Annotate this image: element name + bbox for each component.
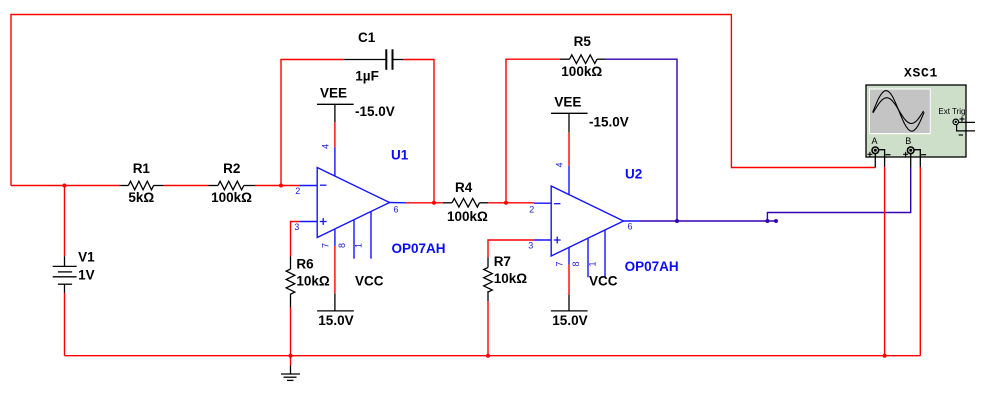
XSC1 screen [870, 90, 930, 134]
resistor R4 [443, 180, 488, 224]
wire R4 to U2 pin 2 [488, 202, 534, 204]
U1 triangle body [317, 168, 389, 238]
wire U1 output to R4 [406, 202, 443, 204]
XSC1 channel A minus terminal lead [879, 150, 885, 167]
svg-text:VCC: VCC [355, 274, 384, 289]
U2 pin 3 stub [534, 239, 551, 241]
XSC1 channel B plus mark [903, 153, 908, 155]
wire U2 output net [640, 220, 776, 222]
XSC1 waveform trace A [873, 91, 924, 132]
XSC1 Ext Trig plus lead [959, 121, 975, 123]
wire R7 to bottom rail [487, 301, 489, 356]
svg-text:100kΩ: 100kΩ [211, 190, 252, 205]
node junction C1 loop at U1 pin 2 net [279, 184, 283, 188]
op-amp U1 OP07AH [294, 144, 445, 259]
wire scope B- to bottom rail [919, 167, 921, 356]
node junction R5 loop at U2 output net [675, 219, 679, 223]
svg-text:VCC: VCC [589, 274, 618, 289]
U2 pin 2 stub [534, 202, 551, 204]
wire bottom ground rail [65, 355, 921, 357]
U2 pin 7 stub [568, 247, 570, 264]
XSC1 Ext Trig minus lead [957, 125, 975, 131]
resistor R7 [484, 254, 528, 301]
wire U2 pin 7 to VCC [568, 265, 570, 296]
XSC1 channel A terminal [872, 147, 879, 154]
svg-text:5kΩ: 5kΩ [128, 190, 154, 205]
svg-text:R6: R6 [296, 257, 314, 272]
XSC1 Ext Trig minus mark [959, 134, 963, 136]
svg-text:OP07AH: OP07AH [625, 259, 679, 274]
XSC1 waveform trace B [873, 98, 924, 124]
U2 non-inverting input plus mark [554, 239, 561, 241]
XSC1 screen bezel [869, 89, 931, 135]
XSC1 channel B terminal [907, 147, 914, 154]
wire U2 pin 3 to R7 [488, 240, 534, 257]
svg-text:A: A [872, 136, 878, 146]
supply VCC 15.0V for U1 [317, 274, 384, 329]
svg-text:3: 3 [528, 241, 533, 251]
supply VEE -15.0V for U1 [317, 86, 395, 123]
wire R1 to R2 [164, 185, 209, 187]
wire output net to scope B+ [767, 167, 910, 221]
svg-text:6: 6 [628, 222, 633, 232]
svg-text:10kΩ: 10kΩ [296, 274, 330, 289]
wire R6 to bottom rail [290, 308, 292, 356]
svg-text:V1: V1 [78, 249, 95, 264]
wire input node to scope A+ (top loop) [11, 15, 875, 186]
wire C1 feedback loop left leg [281, 60, 344, 186]
svg-text:1µF: 1µF [355, 69, 379, 84]
U1 pin 1 stub [370, 212, 372, 259]
U2 triangle body [551, 186, 623, 256]
U1 pin 3 stub [300, 221, 317, 223]
svg-text:U1: U1 [391, 148, 409, 163]
wire VEE to U1 pin 4 [334, 122, 336, 147]
wire input node to R1 [11, 185, 120, 187]
svg-text:2: 2 [295, 186, 300, 196]
voltage source V1 1V [53, 249, 95, 292]
XSC1 Ext Trig terminal [953, 119, 959, 125]
U2 pin 1 stub [604, 230, 606, 277]
XSC1 channel A plus mark [867, 153, 872, 155]
svg-text:100kΩ: 100kΩ [447, 209, 488, 224]
op-amp U2 OP07AH [528, 162, 678, 277]
svg-text:-15.0V: -15.0V [589, 115, 629, 130]
wire R2 to U1 pin 2 [255, 185, 300, 187]
svg-text:1: 1 [587, 261, 597, 266]
U2 pin 8 stub [587, 238, 589, 277]
node junction R5 loop at U2 pin 2 net [504, 201, 508, 205]
U2 pin 6 output stub [624, 220, 641, 222]
svg-text:U2: U2 [625, 167, 642, 182]
wire R5 feedback loop left leg [506, 59, 560, 203]
svg-text:C1: C1 [358, 30, 376, 45]
svg-text:XSC1: XSC1 [904, 66, 938, 81]
node output net end [774, 219, 778, 223]
XSC1 channel B plus terminal lead [910, 154, 912, 167]
resistor R5 [560, 34, 605, 79]
svg-text:2: 2 [529, 205, 534, 215]
wire U1 pin 7 to VCC [334, 246, 336, 294]
XSC1 body [866, 85, 966, 157]
svg-text:R5: R5 [574, 34, 592, 49]
supply VEE -15.0V for U2 [551, 95, 629, 133]
wire C1 feedback loop right leg [403, 60, 434, 204]
svg-text:7: 7 [320, 243, 330, 248]
node output net branch to scope [765, 219, 769, 223]
XSC1 channel B minus terminal lead [914, 150, 920, 167]
XSC1 Ext Trig plus mark [960, 118, 965, 120]
svg-text:100kΩ: 100kΩ [561, 64, 602, 79]
svg-text:10kΩ: 10kΩ [494, 271, 528, 286]
svg-text:R4: R4 [455, 180, 473, 195]
svg-text:4: 4 [321, 144, 331, 149]
svg-text:7: 7 [554, 261, 564, 266]
svg-text:1: 1 [353, 243, 363, 248]
U1 pin 2 stub [300, 185, 317, 187]
node junction C1 loop at U1 output net [432, 201, 436, 205]
U1 pin 7 stub [334, 229, 336, 246]
svg-text:3: 3 [294, 222, 299, 232]
U2 pin 4 stub [568, 166, 570, 195]
capacitor C1 1uF [344, 30, 403, 84]
svg-text:6: 6 [394, 205, 399, 215]
wire R5 feedback loop right leg [605, 59, 677, 221]
node junction at V1 top / input node [63, 184, 67, 188]
XSC1 channel A plus terminal lead [874, 154, 876, 168]
XSC1 channel B minus mark [921, 154, 926, 156]
svg-text:OP07AH: OP07AH [392, 241, 446, 256]
node junction R6 at bottom rail [289, 354, 293, 358]
svg-text:VEE: VEE [554, 95, 581, 110]
resistor R2 [209, 161, 256, 205]
wire V1 to bottom rail [64, 293, 66, 356]
svg-text:4: 4 [555, 162, 565, 167]
U1 inverting input minus mark [320, 184, 327, 186]
resistor R6 [286, 257, 330, 308]
svg-text:R2: R2 [223, 161, 240, 176]
svg-text:8: 8 [571, 261, 581, 266]
svg-text:-15.0V: -15.0V [355, 104, 395, 119]
svg-text:15.0V: 15.0V [552, 313, 587, 328]
U1 non-inverting input plus mark [320, 221, 327, 223]
oscilloscope XSC1 [866, 66, 975, 168]
ground [281, 356, 300, 381]
wire VEE to U2 pin 4 [568, 132, 570, 165]
node junction R7 at bottom rail [486, 354, 490, 358]
svg-text:8: 8 [337, 243, 347, 248]
svg-text:1V: 1V [78, 267, 95, 282]
U1 pin 4 stub [334, 147, 336, 176]
node junction scope A- at bottom rail [883, 354, 887, 358]
wire scope A- to bottom rail [884, 167, 886, 356]
svg-text:R7: R7 [494, 254, 511, 269]
wire input node to V1 [64, 186, 66, 257]
U2 inverting input minus mark [554, 203, 561, 205]
XSC1 channel A minus mark [886, 154, 891, 156]
wire U1 pin 3 to R6 [291, 222, 301, 257]
svg-text:R1: R1 [133, 161, 151, 176]
svg-text:B: B [905, 136, 911, 146]
svg-text:15.0V: 15.0V [318, 313, 353, 328]
supply VCC 15.0V for U2 [551, 274, 618, 329]
svg-text:Ext Trig: Ext Trig [938, 107, 965, 116]
svg-text:VEE: VEE [320, 86, 347, 101]
resistor R1 [120, 161, 164, 205]
U1 pin 8 stub [353, 220, 355, 259]
U1 pin 6 output stub [390, 202, 407, 204]
